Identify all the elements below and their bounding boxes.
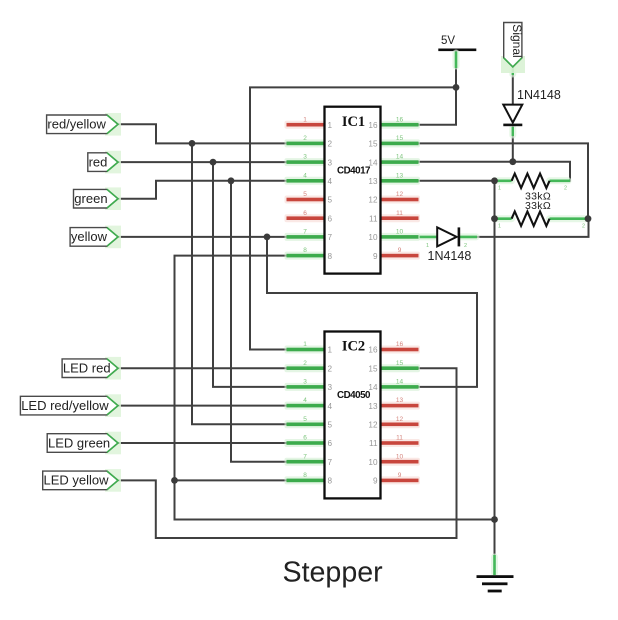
svg-text:9: 9 xyxy=(373,252,378,261)
net label flag red/yellow xyxy=(47,113,121,136)
svg-text:5: 5 xyxy=(328,196,333,205)
svg-text:7: 7 xyxy=(303,453,307,460)
wire Signal flag to diode D1 xyxy=(512,66,514,104)
svg-text:1: 1 xyxy=(498,224,501,230)
svg-text:red/yellow: red/yellow xyxy=(47,117,106,132)
svg-text:CD4050: CD4050 xyxy=(337,390,371,401)
node ground junction xyxy=(491,516,498,523)
wire yellow branch to IC2 pin14 xyxy=(267,237,477,387)
node red/yellow junction xyxy=(189,140,196,147)
wire red/yellow to IC1 pin2 xyxy=(118,124,287,143)
IC1 pin 10 stub xyxy=(379,229,421,241)
wire D2 cathode to R2 node xyxy=(460,219,589,237)
svg-text:13: 13 xyxy=(396,172,404,179)
svg-text:4: 4 xyxy=(328,177,333,186)
IC2 pin 3 stub xyxy=(285,379,327,391)
IC2 pin 4 stub xyxy=(285,397,327,409)
svg-text:12: 12 xyxy=(396,416,404,423)
svg-text:14: 14 xyxy=(396,379,404,386)
wire 5V symbol to junction xyxy=(455,51,457,87)
net label flag Signal xyxy=(501,23,525,74)
svg-text:6: 6 xyxy=(303,210,307,217)
IC2 pin 10 stub xyxy=(379,453,421,465)
svg-text:IC1: IC1 xyxy=(342,114,365,130)
IC2 pin 5 stub xyxy=(285,416,327,428)
node red junction xyxy=(210,159,217,166)
svg-text:7: 7 xyxy=(328,458,333,467)
svg-text:4: 4 xyxy=(328,402,333,411)
wire IC1 pin8 down to ground rail xyxy=(175,256,495,520)
svg-text:5V: 5V xyxy=(441,35,455,47)
IC2 pin 1 stub xyxy=(285,341,327,353)
svg-text:3: 3 xyxy=(328,158,333,167)
svg-text:8: 8 xyxy=(303,472,307,479)
resistor R1 33k xyxy=(495,174,571,192)
net label flag LED yellow xyxy=(43,469,121,492)
svg-text:14: 14 xyxy=(368,383,378,392)
svg-text:11: 11 xyxy=(396,435,403,442)
wire LED red/yellow to IC2 pin4 xyxy=(118,405,287,407)
IC2 pin 11 stub xyxy=(379,435,421,447)
svg-text:yellow: yellow xyxy=(71,229,108,244)
wire signal green tail xyxy=(509,67,516,75)
resistor R2 33k xyxy=(495,212,589,230)
IC1 pin 6 stub xyxy=(285,210,327,222)
svg-text:2: 2 xyxy=(303,360,307,367)
wire LED red to IC2 pin2 xyxy=(118,367,287,369)
wire LED yellow to IC2 pin15 xyxy=(118,368,457,538)
svg-text:1N4148: 1N4148 xyxy=(517,88,561,102)
svg-text:red: red xyxy=(89,154,108,169)
IC1 pin 8 stub xyxy=(285,247,327,259)
svg-text:1: 1 xyxy=(303,341,307,348)
node 5V junction xyxy=(453,84,460,91)
svg-text:16: 16 xyxy=(368,121,378,130)
power symbol 5V xyxy=(438,35,476,51)
svg-text:10: 10 xyxy=(368,458,378,467)
svg-text:1: 1 xyxy=(328,121,333,130)
svg-text:16: 16 xyxy=(396,341,404,348)
svg-text:6: 6 xyxy=(303,435,307,442)
svg-text:11: 11 xyxy=(369,214,378,223)
wire red/yellow branch to IC2 pin5 xyxy=(192,143,287,424)
svg-text:7: 7 xyxy=(328,233,333,242)
svg-text:15: 15 xyxy=(396,360,404,367)
wire red branch to IC2 pin3 xyxy=(213,162,287,387)
node LED yellow junction xyxy=(171,477,178,484)
IC1 pin 5 stub xyxy=(285,191,327,203)
IC1 pin 7 stub xyxy=(285,229,327,241)
svg-text:1: 1 xyxy=(328,346,333,355)
IC2 pin 12 stub xyxy=(379,416,421,428)
IC2 pin 13 stub xyxy=(379,397,421,409)
svg-text:4: 4 xyxy=(303,397,307,404)
IC2 pin 14 stub xyxy=(379,379,421,391)
net label flag LED red xyxy=(62,357,121,380)
svg-text:12: 12 xyxy=(396,191,404,198)
svg-text:2: 2 xyxy=(564,186,567,192)
label R1 value 33k xyxy=(525,191,551,203)
svg-text:1N4148: 1N4148 xyxy=(428,249,472,263)
node R1 left junction xyxy=(491,177,498,184)
ground xyxy=(477,575,514,592)
IC1 pin 4 stub xyxy=(285,172,327,184)
net label flag green xyxy=(74,187,122,210)
IC1 pin 2 stub xyxy=(285,135,327,147)
wire red to IC1 pin3 xyxy=(118,161,288,163)
wire IC1 pin13 to ground node xyxy=(419,180,495,182)
svg-text:6: 6 xyxy=(328,439,333,448)
svg-text:Stepper: Stepper xyxy=(283,556,384,588)
wire D1 cathode green tail xyxy=(509,127,516,136)
label R2 value 33k xyxy=(525,200,551,212)
svg-text:LED red/yellow: LED red/yellow xyxy=(21,398,109,413)
IC1 pin 9 stub xyxy=(379,247,421,259)
node green junction xyxy=(228,177,235,184)
svg-text:11: 11 xyxy=(396,210,403,217)
wire LED green to IC2 pin6 xyxy=(118,442,287,444)
label D1 1N4148 xyxy=(517,88,561,102)
svg-text:7: 7 xyxy=(303,229,307,236)
wire ground green tail xyxy=(491,555,498,575)
svg-text:15: 15 xyxy=(368,364,378,373)
svg-text:LED yellow: LED yellow xyxy=(44,473,110,488)
svg-text:10: 10 xyxy=(368,233,378,242)
diode D2 1N4148 xyxy=(419,227,477,249)
label Stepper xyxy=(283,556,384,588)
wire ground vertical xyxy=(494,181,496,556)
wire IC1 pin14 to R1 node xyxy=(419,162,570,181)
IC1 pin 13 stub xyxy=(379,172,421,184)
svg-text:IC2: IC2 xyxy=(342,339,365,355)
svg-text:14: 14 xyxy=(368,158,378,167)
label D2 1N4148 xyxy=(428,249,472,263)
IC1 pin 15 stub xyxy=(379,135,421,147)
net label flag yellow xyxy=(70,226,121,249)
node R2 right junction xyxy=(585,215,592,222)
IC1 pin 16 stub xyxy=(379,116,421,128)
wire yellow to IC1 pin7 xyxy=(118,236,288,238)
svg-text:CD4017: CD4017 xyxy=(337,166,371,177)
wire node to IC2 pin8 xyxy=(175,479,288,481)
IC1 pin 1 stub xyxy=(285,116,327,128)
IC2 pin 9 stub xyxy=(379,472,421,484)
wire 5V rail to IC2 pin1 xyxy=(250,87,456,349)
net label flag LED green xyxy=(47,432,121,455)
svg-text:1: 1 xyxy=(498,186,501,192)
wire D1 cathode to node xyxy=(512,126,514,162)
wire IC1 pin15 to R2 xyxy=(419,143,588,218)
net label flag LED red/yellow xyxy=(20,394,121,417)
IC1 pin 12 stub xyxy=(379,191,421,203)
svg-text:13: 13 xyxy=(368,177,378,186)
svg-text:3: 3 xyxy=(303,379,307,386)
svg-text:2: 2 xyxy=(328,364,333,373)
svg-text:5: 5 xyxy=(328,421,333,430)
svg-text:2: 2 xyxy=(303,135,307,142)
IC2 pin 16 stub xyxy=(379,341,421,353)
IC2 pin 15 stub xyxy=(379,360,421,372)
svg-text:4: 4 xyxy=(303,172,307,179)
svg-text:6: 6 xyxy=(328,214,333,223)
svg-text:8: 8 xyxy=(328,252,333,261)
net label flag red xyxy=(88,151,121,174)
svg-text:11: 11 xyxy=(369,439,378,448)
svg-text:2: 2 xyxy=(582,224,585,230)
svg-text:16: 16 xyxy=(396,116,404,123)
svg-text:10: 10 xyxy=(396,453,404,460)
IC2 pin 6 stub xyxy=(285,435,327,447)
svg-text:12: 12 xyxy=(368,196,378,205)
wire green to IC1 pin4 xyxy=(118,181,288,199)
node D1 cathode junction xyxy=(509,158,516,165)
svg-text:3: 3 xyxy=(303,154,307,161)
wire 5V junction to IC1 pin16 xyxy=(419,87,456,124)
svg-text:13: 13 xyxy=(368,402,378,411)
IC1 pin 11 stub xyxy=(379,210,421,222)
svg-text:LED red: LED red xyxy=(63,361,111,376)
svg-text:9: 9 xyxy=(398,472,402,479)
svg-text:5: 5 xyxy=(303,191,307,198)
IC box IC1 CD4017 xyxy=(325,107,381,274)
svg-text:LED green: LED green xyxy=(48,435,110,450)
svg-text:13: 13 xyxy=(396,397,404,404)
svg-text:12: 12 xyxy=(368,421,378,430)
wire 5V green tail xyxy=(453,52,460,69)
svg-text:5: 5 xyxy=(303,416,307,423)
svg-text:8: 8 xyxy=(303,247,307,254)
node R2 left junction xyxy=(491,215,498,222)
wire green branch to IC2 pin7 xyxy=(231,181,287,462)
svg-text:16: 16 xyxy=(368,346,378,355)
IC2 pin 2 stub xyxy=(285,360,327,372)
node yellow junction xyxy=(264,234,271,241)
svg-text:Signal: Signal xyxy=(510,24,524,57)
IC1 pin 3 stub xyxy=(285,154,327,166)
svg-text:1: 1 xyxy=(303,116,307,123)
svg-text:8: 8 xyxy=(328,477,333,486)
svg-text:15: 15 xyxy=(368,140,378,149)
svg-text:33kΩ: 33kΩ xyxy=(525,200,551,212)
IC2 pin 8 stub xyxy=(285,472,327,484)
svg-text:2: 2 xyxy=(328,140,333,149)
IC2 pin 7 stub xyxy=(285,453,327,465)
svg-text:3: 3 xyxy=(328,383,333,392)
svg-text:15: 15 xyxy=(396,135,404,142)
svg-text:10: 10 xyxy=(396,229,404,236)
svg-text:green: green xyxy=(74,191,107,206)
svg-text:9: 9 xyxy=(373,477,378,486)
svg-text:9: 9 xyxy=(398,247,402,254)
diode D1 1N4148 xyxy=(503,105,522,127)
svg-text:14: 14 xyxy=(396,154,404,161)
IC box IC2 CD4050 xyxy=(325,332,381,499)
IC1 pin 14 stub xyxy=(379,154,421,166)
